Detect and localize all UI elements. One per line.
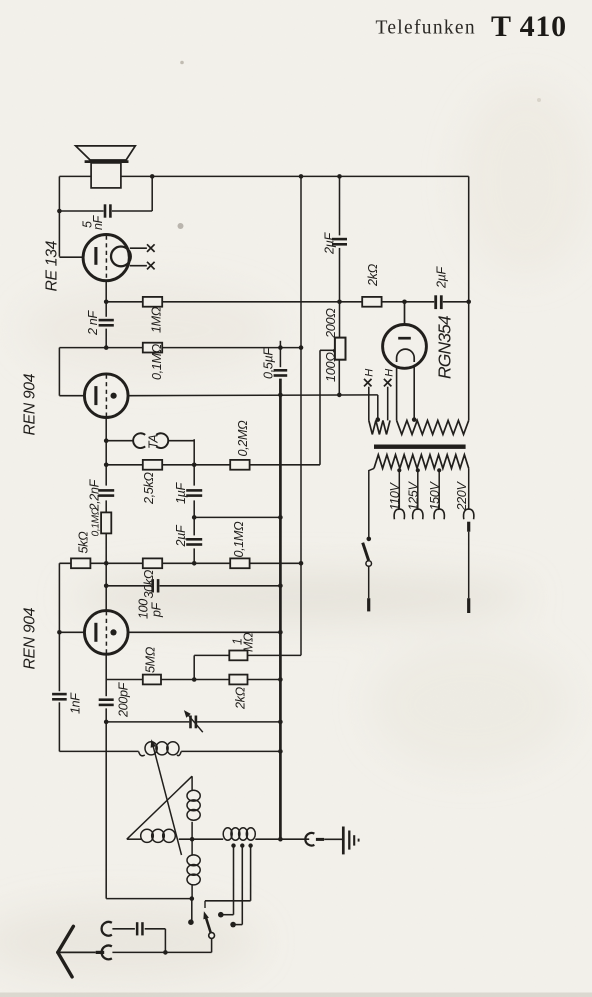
- svg-text:0,1MΩ: 0,1MΩ: [91, 507, 102, 536]
- svg-text:2,5kΩ: 2,5kΩ: [142, 472, 156, 505]
- svg-text:MΩ: MΩ: [242, 632, 256, 652]
- svg-text:0,1MΩ: 0,1MΩ: [150, 343, 164, 380]
- svg-text:2µF: 2µF: [323, 231, 337, 255]
- svg-text:0,5µF: 0,5µF: [262, 347, 276, 379]
- svg-text:200Ω: 200Ω: [323, 308, 338, 339]
- svg-text:2µF: 2µF: [435, 265, 449, 289]
- svg-text:5MΩ: 5MΩ: [144, 646, 158, 673]
- svg-text:nF: nF: [91, 214, 105, 230]
- svg-text:150V: 150V: [428, 481, 442, 511]
- svg-text:1MΩ: 1MΩ: [150, 306, 164, 333]
- svg-text:0,1MΩ: 0,1MΩ: [232, 521, 246, 558]
- svg-text:2µF: 2µF: [174, 524, 188, 548]
- svg-text:2kΩ: 2kΩ: [366, 263, 380, 287]
- svg-text:100: 100: [137, 599, 151, 619]
- svg-text:H: H: [383, 369, 395, 377]
- svg-text:1µF: 1µF: [174, 481, 188, 504]
- svg-text:110V: 110V: [388, 481, 402, 510]
- svg-text:RGN354: RGN354: [435, 315, 455, 379]
- svg-text:1nF: 1nF: [69, 692, 83, 714]
- svg-text:2 nF: 2 nF: [86, 310, 100, 336]
- svg-text:125V: 125V: [407, 481, 421, 511]
- svg-text:RE 134: RE 134: [44, 240, 61, 291]
- svg-text:0,2MΩ: 0,2MΩ: [236, 420, 250, 457]
- svg-text:5kΩ: 5kΩ: [77, 531, 91, 554]
- svg-text:REN 904: REN 904: [22, 607, 39, 669]
- svg-text:220V: 220V: [455, 481, 469, 512]
- svg-text:200pF: 200pF: [117, 681, 131, 718]
- svg-text:REN 904: REN 904: [22, 373, 39, 435]
- svg-text:H: H: [364, 369, 376, 377]
- svg-text:T 410: T 410: [491, 10, 567, 43]
- svg-text:100Ω: 100Ω: [323, 352, 338, 382]
- svg-text:2,2nF: 2,2nF: [88, 478, 102, 511]
- svg-text:pF: pF: [150, 601, 164, 618]
- svg-text:2kΩ: 2kΩ: [233, 686, 247, 710]
- svg-text:Telefunken: Telefunken: [376, 18, 476, 39]
- svg-text:30kΩ: 30kΩ: [142, 569, 156, 598]
- svg-text:TA: TA: [147, 435, 161, 449]
